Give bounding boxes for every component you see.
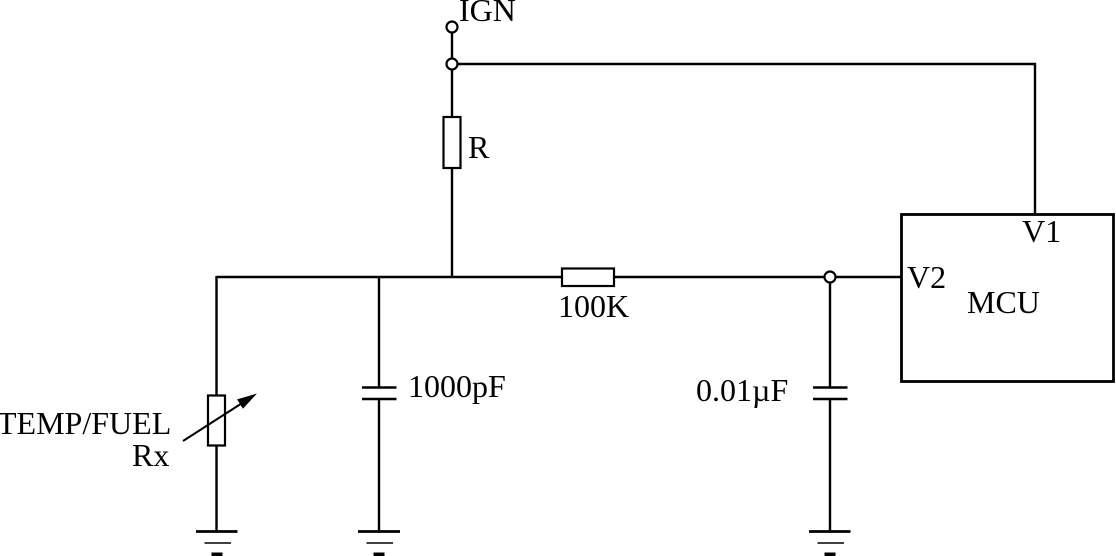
junction node circle [447,59,458,70]
capacitor 1000pF [362,388,397,400]
svg-text:V1: V1 [1022,213,1061,249]
ground under 0.01uF [809,532,851,556]
svg-text:Rx: Rx [132,437,169,473]
svg-text:R: R [468,129,490,165]
wire junction to resistor R [451,69,453,118]
svg-text:0.01µF: 0.01µF [696,372,788,408]
wire bus down to capacitor 1000pF [378,277,380,387]
capacitor 0.01uF [813,388,848,400]
IC MCU box [902,215,1114,382]
wire Rx to ground [215,445,217,531]
resistor R [444,117,461,168]
svg-text:1000pF: 1000pF [408,368,506,404]
wire resistor R to bus [451,168,453,277]
ground under 1000pF [358,532,400,556]
wire IGN terminal to junction [451,32,453,59]
ground under Rx [196,532,238,556]
svg-text:100K: 100K [558,288,629,324]
arrow of variable resistor Rx [183,403,243,442]
svg-text:IGN: IGN [459,0,516,28]
resistor Rx (variable) [208,396,225,446]
node V2 circle [825,272,836,283]
svg-text:TEMP/FUEL: TEMP/FUEL [0,405,171,441]
wire node to capacitor 0.01uF [829,282,831,387]
wire horizontal bus [217,276,902,278]
node IGN terminal circle [447,22,458,33]
wire bus corner down to Rx [215,276,217,396]
wire capacitor 0.01uF to ground [829,400,831,531]
resistor 100K [562,269,614,287]
wire capacitor 1000pF to ground [378,400,380,531]
wire top run from junction to MCU V1 [458,64,1036,216]
svg-text:V2: V2 [907,259,946,295]
svg-text:MCU: MCU [967,284,1040,320]
